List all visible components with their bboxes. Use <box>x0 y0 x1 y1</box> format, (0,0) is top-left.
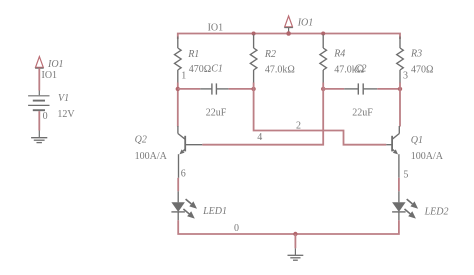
wire from IO1 arrow to battery V1 <box>38 68 40 90</box>
svg-text:5: 5 <box>403 170 408 181</box>
svg-text:R4: R4 <box>333 48 345 59</box>
wire C2 left <box>323 88 344 90</box>
wire node3 column (R3 bottom to Q1 collector) <box>399 83 401 127</box>
connector IO1 (left) arrow symbol <box>35 57 44 69</box>
transistor Q2 <box>178 126 202 178</box>
svg-text:LED1: LED1 <box>202 206 227 217</box>
svg-text:V1: V1 <box>58 93 69 104</box>
wire battery to ground <box>38 111 40 137</box>
transistor Q1 <box>386 126 399 178</box>
resistor R2 <box>250 35 257 84</box>
svg-text:0: 0 <box>234 223 239 234</box>
svg-text:1: 1 <box>181 70 186 81</box>
svg-text:C1: C1 <box>211 64 223 75</box>
svg-text:R3: R3 <box>410 49 422 60</box>
svg-text:IO1: IO1 <box>297 18 314 29</box>
svg-text:Q2: Q2 <box>135 134 147 145</box>
svg-text:C2: C2 <box>355 63 367 74</box>
junction dot node 3 <box>398 87 402 91</box>
connector IO1 (top) arrow symbol <box>284 16 293 32</box>
wire Q1 emitter to LED2 <box>398 178 400 192</box>
svg-text:IO1: IO1 <box>42 70 58 81</box>
wire node 4 route (R4 bottom to Q2 base) <box>202 83 323 145</box>
svg-text:12V: 12V <box>57 109 75 120</box>
svg-text:R1: R1 <box>187 49 199 60</box>
svg-text:IO1: IO1 <box>208 23 224 34</box>
svg-text:22uF: 22uF <box>352 107 373 118</box>
ground (left) <box>31 138 47 143</box>
resistor R3 <box>397 37 404 84</box>
wire node1 column (R1 bottom to Q2 collector) <box>177 83 179 127</box>
junction dot node 1 <box>176 87 180 91</box>
LED1 <box>171 191 197 220</box>
svg-text:4: 4 <box>257 132 262 143</box>
junction dot (IO1 stub on top wire) <box>286 31 291 36</box>
resistor R4 <box>320 35 327 84</box>
LED2 <box>392 191 418 220</box>
svg-text:47.0kΩ: 47.0kΩ <box>265 64 295 75</box>
junction dot node 4 <box>321 87 325 91</box>
junction dot node 2 <box>251 87 255 91</box>
svg-text:100A/A: 100A/A <box>135 151 168 162</box>
battery V1 <box>28 96 49 110</box>
svg-text:0: 0 <box>43 111 48 122</box>
wire bottom net 0 <box>178 220 399 234</box>
svg-text:2: 2 <box>296 120 301 131</box>
wire node 2 route (R2 bottom to Q1 base) <box>254 83 387 145</box>
svg-text:IO1: IO1 <box>47 59 64 70</box>
resistor R1 <box>175 37 182 84</box>
wire C1 right to node 2 <box>229 88 254 90</box>
capacitor C1 <box>200 83 228 94</box>
svg-text:470Ω: 470Ω <box>189 64 211 75</box>
wire top IO1 net <box>178 34 400 40</box>
ground (bottom) <box>288 255 304 260</box>
junction dot (R2 top) <box>252 32 256 36</box>
svg-text:3: 3 <box>403 71 408 82</box>
svg-text:100A/A: 100A/A <box>411 151 444 162</box>
svg-text:6: 6 <box>181 169 186 180</box>
svg-text:LED2: LED2 <box>424 207 449 218</box>
svg-text:22uF: 22uF <box>206 107 227 118</box>
junction dot (R4 top) <box>321 32 325 36</box>
svg-text:R2: R2 <box>264 49 276 60</box>
svg-text:Q1: Q1 <box>411 135 423 146</box>
svg-text:470Ω: 470Ω <box>411 65 433 76</box>
wire C2 right to node 3 <box>377 88 400 90</box>
wire C1 left <box>178 88 200 90</box>
wire ground stub <box>294 234 296 255</box>
wire Q2 emitter to LED1 <box>177 178 179 192</box>
capacitor C2 <box>344 83 377 94</box>
junction dot (ground stub) <box>293 232 297 236</box>
